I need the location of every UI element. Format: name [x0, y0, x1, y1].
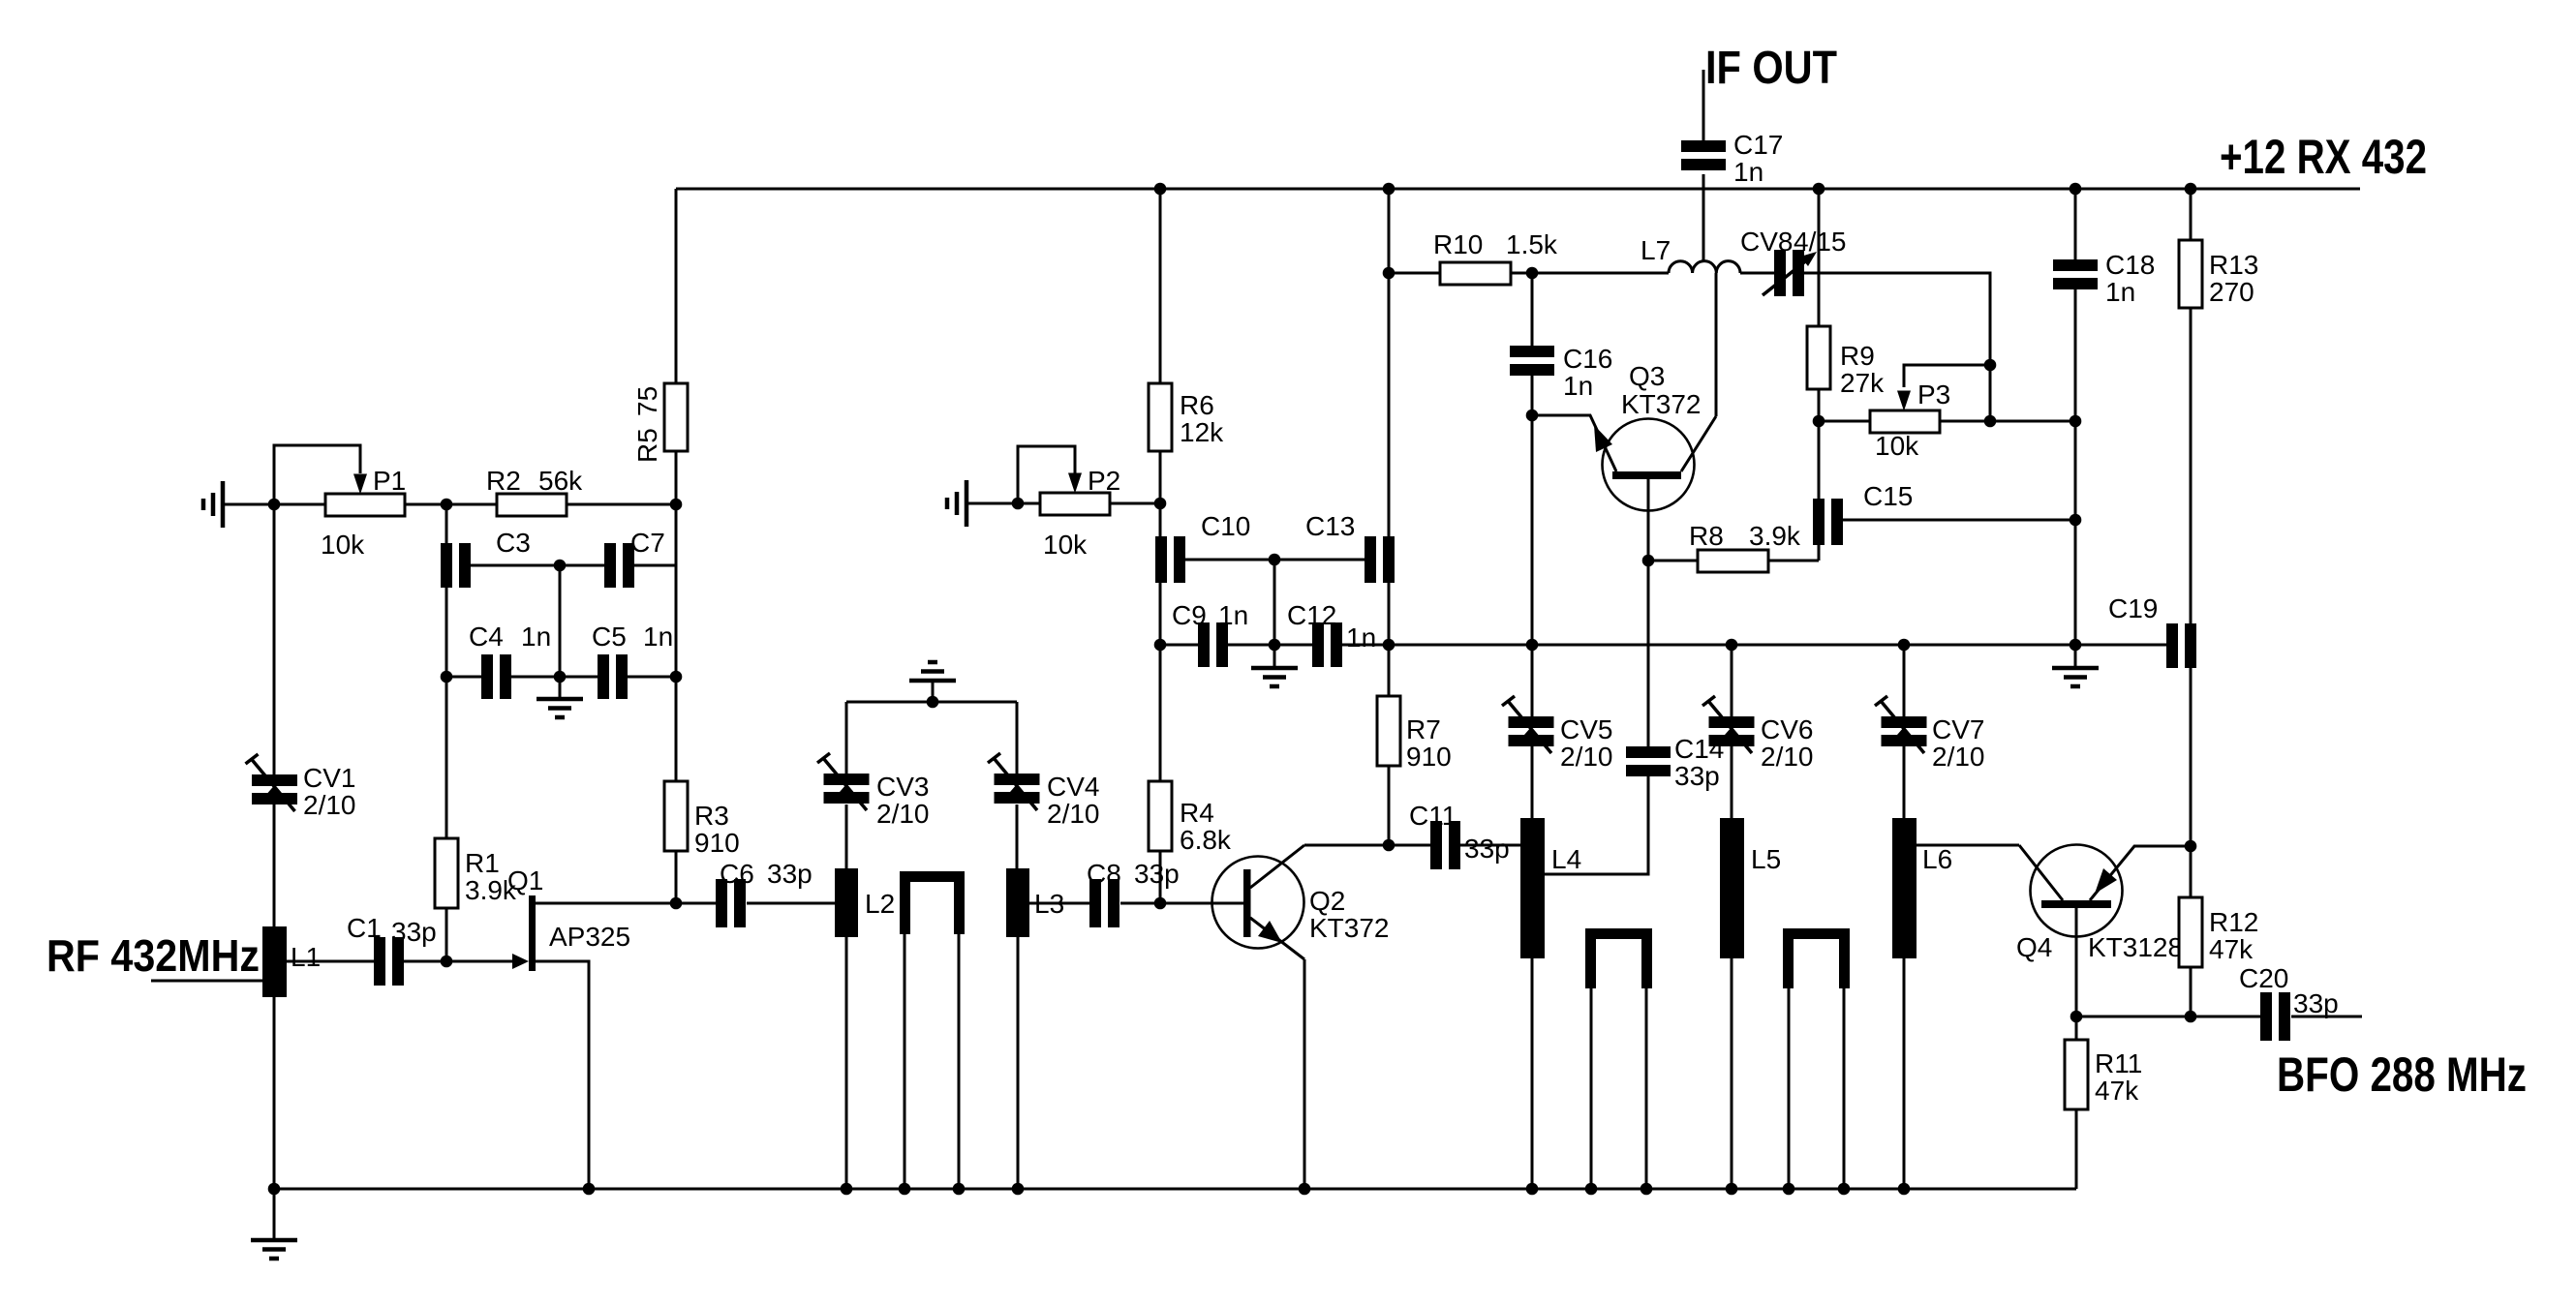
node L3 gnd: [1012, 1183, 1025, 1196]
inductor L2: [835, 868, 895, 937]
svg-text:Q1: Q1: [507, 865, 543, 895]
capacitor C12 1n: [1287, 600, 1376, 667]
wire BFO port: [2291, 1016, 2362, 1018]
node wiper tap P3: [1984, 359, 1997, 372]
capacitor C19: [2108, 593, 2196, 668]
svg-text:C8: C8: [1087, 859, 1121, 889]
svg-text:12k: 12k: [1180, 417, 1224, 447]
wire L1 to bottom bus: [273, 997, 276, 1189]
svg-text:R11: R11: [2095, 1048, 2142, 1078]
wire R10 to L7: [1511, 272, 1669, 275]
node C18/P3: [2070, 415, 2082, 428]
wire L6 to bus: [1903, 958, 1906, 1189]
trimmer capacitor CV3: [817, 753, 930, 829]
wire centre vertical 2: [1273, 560, 1276, 645]
ground filter centre: [537, 677, 583, 717]
svg-text:33p: 33p: [1674, 761, 1720, 791]
trimmer capacitor CV5: [1502, 696, 1613, 772]
capacitor C20 33p: [2239, 963, 2339, 1041]
wire C17 to L7 tap: [1702, 174, 1705, 262]
wire R7 link: [1388, 189, 1391, 696]
capacitor C13: [1305, 511, 1395, 583]
resistor R1 3.9k: [435, 838, 517, 908]
capacitor C1 33p: [347, 913, 437, 986]
svg-text:C4: C4: [469, 622, 504, 652]
node Q4 emitter: [2070, 1011, 2083, 1023]
capacitor C8 33p: [1087, 859, 1180, 927]
svg-text:C20: C20: [2239, 963, 2288, 993]
capacitor C7 1n: [604, 528, 665, 588]
svg-text:P1: P1: [373, 466, 406, 496]
wire C5 to R5 line: [628, 676, 676, 679]
node L4 gnd: [1526, 1183, 1539, 1196]
wire IF OUT stem: [1702, 70, 1705, 140]
node C18 ground: [2070, 639, 2082, 652]
svg-text:33p: 33p: [767, 859, 813, 889]
ground mid bus: [2052, 645, 2099, 686]
svg-text:R3: R3: [694, 801, 729, 831]
capacitor C3 1n: [441, 528, 531, 588]
svg-text:C11: C11: [1409, 801, 1457, 831]
svg-text:CV5: CV5: [1560, 714, 1612, 744]
capacitor C16 1n: [1510, 344, 1612, 401]
node R7 bus: [1383, 183, 1395, 196]
inductor L7: [1641, 235, 1740, 273]
wire L6 tap to Q4: [1917, 844, 2019, 847]
svg-text:2/10: 2/10: [303, 790, 356, 820]
node P2 right: [1154, 498, 1167, 510]
svg-text:IF OUT: IF OUT: [1705, 43, 1837, 94]
resistor R9 27k: [1807, 326, 1885, 398]
svg-text:Q2: Q2: [1309, 886, 1345, 916]
node R10 left: [1383, 267, 1395, 280]
svg-text:47k: 47k: [2095, 1076, 2139, 1106]
wire L2 to bus: [845, 937, 848, 1189]
trimmer capacitor CV1: [246, 754, 356, 820]
inductor L6: [1892, 818, 1952, 958]
wire bottom ground bus: [274, 1188, 2076, 1191]
node R5 bottom: [670, 499, 683, 511]
svg-text:2/10: 2/10: [1047, 799, 1100, 829]
wire R8 right lead: [1768, 560, 1819, 562]
svg-text:L4: L4: [1551, 844, 1581, 874]
ground tank (inverted): [909, 662, 956, 702]
svg-text:CV7: CV7: [1932, 714, 1984, 744]
coupling link link L5-L6: [1783, 928, 1850, 988]
inductor L3: [1006, 868, 1064, 937]
wire Q1 source: [536, 961, 589, 1189]
wire C15 lower lead: [1818, 545, 1821, 561]
wire CV4 to L3: [1016, 804, 1019, 868]
wire CV4 top: [1016, 702, 1019, 774]
svg-text:1n: 1n: [521, 622, 551, 652]
wire C19 down to Q4 collector: [2190, 668, 2193, 897]
wire C7 to R5 line: [633, 564, 676, 567]
wire L7 to CV8: [1740, 272, 1774, 275]
wire C9 to C12: [1228, 644, 1312, 647]
node link1a gnd: [899, 1183, 911, 1196]
trimmer capacitor CV7: [1875, 696, 1985, 772]
node R13 bus: [2185, 183, 2197, 196]
capacitor C14 33p: [1626, 734, 1724, 791]
svg-text:R7: R7: [1406, 714, 1441, 744]
wire P3 right: [1940, 420, 2075, 423]
svg-text:R4: R4: [1180, 798, 1214, 828]
resistor R12 47k: [2179, 897, 2258, 967]
resistor R4 6.8k: [1149, 781, 1232, 855]
trimmer capacitor CV6: [1702, 696, 1814, 772]
wire C3 to C7: [471, 564, 604, 567]
svg-text:R9: R9: [1840, 341, 1875, 371]
wire CV8 to corner: [1804, 273, 1990, 421]
svg-text:R1: R1: [465, 848, 500, 878]
wire P1 wiper loop: [274, 445, 360, 504]
svg-text:L7: L7: [1641, 235, 1671, 265]
inductor L5: [1720, 818, 1781, 958]
svg-text:6.8k: 6.8k: [1180, 825, 1232, 855]
transistor Q1 AP325: [507, 865, 630, 971]
wire Q3 base down: [1647, 479, 1650, 746]
svg-text:910: 910: [1406, 742, 1452, 772]
wire C8 to Q2 base: [1120, 902, 1243, 905]
svg-text:1n: 1n: [1733, 157, 1763, 187]
node C12 right: [1383, 639, 1395, 652]
wire R9 bottom: [1818, 389, 1821, 421]
wire CV7 to L6: [1903, 746, 1906, 818]
wire mid ground bus: [1342, 644, 2166, 647]
capacitor C4: [469, 622, 551, 699]
wire filter centre vertical: [559, 565, 562, 677]
wire R5 feed from bus: [675, 189, 678, 383]
svg-text:L1: L1: [291, 942, 321, 972]
svg-text:C16: C16: [1563, 344, 1612, 374]
wire link3 left leg: [1788, 988, 1791, 1189]
node R7 bottom: [1383, 839, 1395, 852]
wire input ground to P1: [223, 503, 325, 506]
wire R13 to C19: [2190, 308, 2193, 623]
node P2 left: [1012, 498, 1025, 510]
wire R3 bottom: [675, 851, 678, 903]
node CV7 bus: [1898, 639, 1911, 652]
svg-text:56k: 56k: [538, 466, 583, 496]
capacitor C11 33p: [1409, 801, 1510, 869]
wire P2 wiper loop: [1018, 446, 1075, 503]
wire R4 bottom: [1159, 851, 1162, 903]
svg-text:C10: C10: [1201, 511, 1250, 541]
wire R13 top: [2190, 189, 2193, 240]
node C20 left: [2185, 1011, 2197, 1023]
svg-text:75: 75: [632, 386, 662, 416]
inductor L4: [1520, 818, 1581, 958]
svg-text:CV6: CV6: [1761, 714, 1813, 744]
node link3b gnd: [1838, 1183, 1851, 1196]
resistor R11 47k: [2065, 1040, 2142, 1109]
node R9 / P3 junction: [1813, 415, 1825, 428]
svg-text:R10: R10: [1433, 229, 1483, 259]
wire C16 top lead: [1531, 273, 1534, 346]
svg-text:910: 910: [694, 828, 740, 858]
svg-text:10k: 10k: [1875, 431, 1919, 461]
capacitor C5: [592, 622, 673, 699]
svg-text:R12: R12: [2209, 907, 2258, 937]
svg-text:10k: 10k: [1043, 530, 1088, 560]
transistor Q3 KT372: [1532, 361, 1716, 511]
node R3 top: [670, 671, 683, 683]
wire to C6: [676, 902, 716, 905]
svg-text:2/10: 2/10: [876, 799, 930, 829]
wire CV1 top: [273, 445, 276, 774]
wire P2 to R6 node: [1110, 502, 1160, 505]
svg-text:33p: 33p: [391, 917, 437, 947]
node P1 left: [268, 499, 281, 511]
wire mid bus left: [1160, 644, 1198, 647]
potentiometer P1: [321, 466, 406, 560]
wire bus to R10: [1389, 272, 1440, 275]
svg-text:C18: C18: [2105, 250, 2155, 280]
wire R6 top: [1159, 189, 1162, 383]
svg-text:1n: 1n: [1563, 371, 1593, 401]
wire R12 bottom: [2190, 967, 2193, 1017]
node filter centre bottom: [554, 671, 567, 683]
wire C15 top: [1818, 421, 1821, 499]
svg-text:2/10: 2/10: [1932, 742, 1985, 772]
wire CV1 to L1: [273, 804, 276, 926]
node R8 left: [1642, 555, 1655, 567]
resistor R13 270: [2179, 240, 2258, 308]
svg-text:3.9k: 3.9k: [1749, 521, 1801, 551]
wire C18 top: [2074, 189, 2077, 259]
node Q2 base / R4 bottom: [1154, 897, 1167, 910]
wire P2 ground to pot: [966, 502, 1040, 505]
potentiometer P3: [1870, 379, 1950, 461]
wire C6 to L2: [747, 902, 835, 905]
coupling link link L2-L3: [900, 871, 965, 934]
svg-text:Q4: Q4: [2016, 932, 2052, 962]
svg-text:270: 270: [2209, 277, 2254, 307]
wire CV5 to L4: [1531, 746, 1534, 818]
wire link2 left leg: [1590, 988, 1593, 1189]
resistor R7 910: [1377, 696, 1452, 772]
svg-text:CV8: CV8: [1740, 227, 1793, 257]
wire L2 top: [845, 804, 848, 868]
resistor R6 12k: [1149, 383, 1224, 451]
node C18 bus: [2070, 183, 2082, 196]
node C9 left: [1154, 639, 1167, 652]
node filter centre top: [554, 560, 567, 572]
svg-text:1n: 1n: [1346, 622, 1376, 652]
svg-text:Q3: Q3: [1629, 361, 1665, 391]
svg-text:C12: C12: [1287, 600, 1336, 630]
wire L1 to C1: [287, 960, 374, 963]
wire C15 output: [1843, 519, 2075, 522]
wire Q1 drain: [536, 902, 676, 905]
svg-text:47k: 47k: [2209, 934, 2254, 964]
svg-text:+12 RX 432: +12 RX 432: [2220, 130, 2427, 184]
capacitor C18 1n: [2053, 250, 2155, 307]
node CV6 bus: [1726, 639, 1738, 652]
node centre bottom 2: [1269, 639, 1281, 652]
wire CV6 top: [1731, 645, 1733, 716]
wire C10 to C13: [1185, 559, 1365, 561]
ground P2 rail: [947, 480, 966, 527]
svg-text:C9: C9: [1172, 600, 1207, 630]
node R9 bus: [1813, 183, 1825, 196]
svg-text:CV4: CV4: [1047, 772, 1099, 802]
node P3 right: [1984, 415, 1997, 428]
wire node A vertical (C3/C4/R1): [445, 504, 448, 677]
inductor L1: [262, 926, 321, 997]
svg-text:P3: P3: [1917, 379, 1950, 410]
wire R5 to node: [675, 451, 678, 781]
wire C4 row left: [446, 676, 481, 679]
svg-text:L5: L5: [1751, 844, 1781, 874]
resistor R8 3.9k: [1689, 521, 1801, 572]
svg-text:KT372: KT372: [1621, 389, 1702, 419]
wire R9 top: [1818, 189, 1821, 326]
svg-text:C15: C15: [1863, 481, 1913, 511]
transistor Q2 KT372: [1212, 845, 1390, 959]
transistor Q4 KT3128: [2016, 845, 2191, 963]
node C16 top: [1526, 267, 1539, 280]
node link2a gnd: [1585, 1183, 1598, 1196]
svg-text:C5: C5: [592, 622, 627, 652]
node link3a gnd: [1783, 1183, 1795, 1196]
svg-text:L2: L2: [865, 889, 895, 919]
svg-text:P2: P2: [1088, 466, 1120, 496]
wire C1 to Q1 gate: [404, 960, 512, 963]
capacitor C10: [1155, 511, 1250, 583]
wire L3 to C8: [1029, 902, 1089, 905]
node R6 bus: [1154, 183, 1167, 196]
ground centre 2: [1251, 645, 1298, 686]
ground main: [251, 1189, 297, 1259]
ground input rail: [203, 481, 223, 528]
capacitor C9 1n: [1172, 600, 1248, 667]
wire CV5 top: [1531, 645, 1534, 716]
wire link left leg: [904, 934, 906, 1189]
svg-text:C3: C3: [496, 528, 531, 558]
svg-text:L6: L6: [1922, 844, 1952, 874]
wire R7 bottom: [1388, 766, 1391, 845]
svg-text:33p: 33p: [1464, 834, 1510, 864]
svg-text:R13: R13: [2209, 250, 2258, 280]
wire link right leg: [958, 934, 961, 1189]
wire C4 to C5: [511, 676, 598, 679]
wire +12V bus: [676, 188, 2360, 191]
wire C18 down: [2074, 289, 2077, 645]
wire Q3 collector to L7: [1715, 273, 1718, 416]
wire emitter row to C20: [2076, 1016, 2260, 1018]
svg-text:R8: R8: [1689, 521, 1724, 551]
node CV5 bus: [1526, 639, 1539, 652]
wire tank ground loop: [846, 701, 1017, 704]
capacitor C17 1n: [1681, 130, 1783, 187]
wire P3 left: [1819, 420, 1870, 423]
wire R1 top: [445, 677, 448, 838]
node Q2 emitter gnd: [1299, 1183, 1311, 1196]
wire link2 right leg: [1645, 988, 1648, 1189]
svg-text:C6: C6: [720, 859, 754, 889]
svg-text:2/10: 2/10: [1560, 742, 1613, 772]
svg-text:1n: 1n: [2105, 277, 2135, 307]
wire L3 to bus: [1017, 937, 1020, 1189]
svg-text:1n: 1n: [1218, 600, 1248, 630]
node C4 left: [441, 671, 453, 683]
wire RF input port: [151, 980, 262, 983]
svg-text:10k: 10k: [321, 530, 365, 560]
wire R2 to R5 line: [567, 503, 676, 506]
svg-text:2/10: 2/10: [1761, 742, 1814, 772]
resistor R3 910: [664, 781, 740, 858]
svg-text:R6: R6: [1180, 390, 1214, 420]
svg-text:33p: 33p: [1134, 859, 1180, 889]
resistor R10 1.5k: [1433, 229, 1558, 285]
node C18/C15: [2070, 514, 2082, 527]
svg-text:1.5k: 1.5k: [1506, 229, 1558, 259]
svg-text:AP325: AP325: [549, 922, 630, 952]
svg-text:R2: R2: [486, 466, 521, 496]
wire link3 right leg: [1843, 988, 1846, 1189]
wire CV7 top: [1903, 645, 1906, 716]
node link2b gnd: [1641, 1183, 1653, 1196]
svg-text:KT372: KT372: [1309, 913, 1390, 943]
svg-text:RF 432MHz: RF 432MHz: [46, 930, 260, 981]
svg-text:27k: 27k: [1840, 368, 1885, 398]
wire P3 wiper loop: [1904, 365, 1990, 387]
wire C14 to L4 tap: [1545, 765, 1648, 874]
svg-text:BFO 288 MHz: BFO 288 MHz: [2277, 1047, 2527, 1102]
wire R11 bottom: [2075, 1109, 2078, 1189]
svg-text:C13: C13: [1305, 511, 1355, 541]
node L1 gnd: [268, 1183, 281, 1196]
node tank ground: [927, 696, 939, 709]
svg-text:CV1: CV1: [303, 763, 355, 793]
svg-text:33p: 33p: [2293, 988, 2339, 1018]
resistor R2 56k: [486, 466, 583, 516]
node Q4 collector: [2185, 840, 2197, 853]
node L5 gnd: [1726, 1183, 1738, 1196]
resistor R5 75: [664, 383, 688, 451]
wire C16 to Q3 node: [1531, 375, 1534, 645]
capacitor C15: [1813, 481, 1913, 545]
wire R8 left lead: [1648, 560, 1698, 562]
wire Q2 collector: [1304, 844, 1430, 847]
svg-text:KT3128: KT3128: [2088, 932, 2183, 962]
svg-text:C7: C7: [630, 528, 665, 558]
potentiometer P2: [1040, 466, 1120, 560]
node L2 gnd: [841, 1183, 853, 1196]
node centre top 2: [1269, 554, 1281, 566]
wire node B vertical (C10/R4): [1159, 503, 1162, 781]
wire C11 to L4: [1460, 844, 1520, 847]
wire L4 to bus: [1531, 958, 1534, 1189]
wire P1 to R2: [405, 503, 497, 506]
wire Q4 emitter: [2075, 908, 2078, 1040]
wire CV6 to L5: [1731, 746, 1733, 818]
coupling link link L4-L5: [1585, 928, 1652, 988]
node L6 gnd: [1898, 1183, 1911, 1196]
wire CV3 top: [845, 702, 848, 774]
wire R6 bottom: [1159, 451, 1162, 503]
svg-text:C17: C17: [1733, 130, 1783, 160]
node Q1 drain / R3 bottom: [670, 897, 683, 910]
node C3 top: [441, 499, 453, 511]
trimmer capacitor CV4: [988, 753, 1100, 829]
wire Q2 emitter to bus: [1303, 959, 1306, 1189]
svg-text:CV3: CV3: [876, 772, 929, 802]
node link1b gnd: [953, 1183, 966, 1196]
svg-text:C1: C1: [347, 913, 382, 943]
